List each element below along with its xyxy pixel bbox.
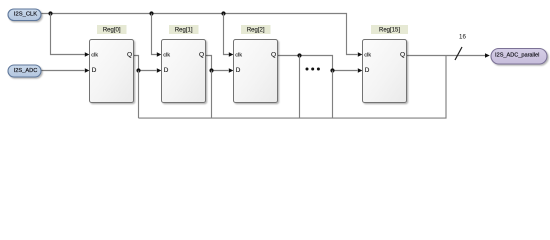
- svg-text:Reg[15]: Reg[15]: [379, 28, 400, 34]
- wire Q2 drop to bus: [299, 56, 301, 119]
- flip-flop Reg[2] box: [234, 40, 278, 103]
- instance label Reg[15]: [371, 25, 408, 34]
- wire clk drop to Reg[2]: [224, 14, 229, 55]
- wire clk drop to Reg[0]: [51, 14, 85, 55]
- wire I2S_CLK clock rail: [41, 14, 358, 55]
- ellipsis omitted registers: [306, 68, 320, 71]
- node junction Q0: [136, 68, 140, 72]
- svg-text:D: D: [92, 67, 97, 74]
- wire Q1 drop to bus: [211, 71, 213, 119]
- instance label Reg[1]: [169, 25, 199, 34]
- arrowhead clk Reg[1]: [157, 52, 162, 57]
- svg-text:D: D: [236, 67, 241, 74]
- svg-text:D: D: [164, 67, 169, 74]
- arrowhead clk Reg[0]: [85, 52, 90, 57]
- svg-text:Q: Q: [199, 52, 204, 59]
- svg-text:16: 16: [459, 34, 466, 41]
- arrowhead output: [485, 53, 490, 58]
- svg-text:Q: Q: [127, 52, 132, 59]
- svg-text:I2S_ADC_parallel: I2S_ADC_parallel: [495, 53, 539, 59]
- svg-text:Reg[1]: Reg[1]: [175, 28, 193, 34]
- arrowhead D Reg[15]: [358, 68, 363, 73]
- wire Q Reg[0] to D Reg[1]: [134, 56, 157, 71]
- instance label Reg[2]: [241, 25, 271, 34]
- node junction clk at Reg[2]: [221, 11, 225, 15]
- flip-flop Reg[0] box: [90, 40, 134, 103]
- svg-text:I2S_ADC: I2S_ADC: [14, 68, 38, 74]
- svg-text:clk: clk: [235, 52, 242, 58]
- output port I2S_ADC_parallel: [491, 49, 547, 65]
- arrowhead D Reg[2]: [229, 68, 234, 73]
- svg-text:Q: Q: [400, 52, 405, 59]
- node junction D15: [330, 68, 334, 72]
- node junction clk at Reg[0]: [48, 11, 52, 15]
- bus width slash: [455, 47, 462, 60]
- node junction clk at Reg[1]: [149, 11, 153, 15]
- wire D15 drop to bus: [332, 71, 334, 119]
- wire Q Reg[1] to D Reg[2]: [206, 56, 229, 71]
- svg-text:Reg[2]: Reg[2]: [247, 28, 265, 34]
- svg-text:Q: Q: [271, 52, 276, 59]
- svg-text:Reg[0]: Reg[0]: [103, 28, 121, 34]
- node junction Q2: [297, 53, 301, 57]
- wire bottom bus: [139, 56, 447, 119]
- arrowhead clk Reg[2]: [229, 52, 234, 57]
- wire Q0 drop to bus: [138, 71, 140, 119]
- arrowhead D Reg[0]: [85, 68, 90, 73]
- svg-text:clk: clk: [364, 52, 371, 58]
- svg-text:clk: clk: [163, 52, 170, 58]
- wire I2S_ADC to Reg[0] D: [41, 70, 85, 72]
- wire Q Reg[15] to output: [407, 55, 486, 57]
- svg-text:D: D: [365, 67, 370, 74]
- input port I2S_ADC: [8, 65, 41, 77]
- instance label Reg[0]: [97, 25, 127, 34]
- wire clk drop to Reg[1]: [152, 14, 157, 55]
- flip-flop Reg[15] box: [363, 40, 407, 103]
- flip-flop Reg[1] box: [162, 40, 206, 103]
- wire Q Reg[2] to D Reg[15]: [278, 56, 358, 71]
- input port I2S_CLK: [8, 9, 41, 21]
- arrowhead D Reg[1]: [157, 68, 162, 73]
- node junction Q1: [209, 68, 213, 72]
- svg-text:clk: clk: [91, 52, 98, 58]
- svg-text:I2S_CLK: I2S_CLK: [14, 12, 37, 18]
- arrowhead clk Reg[15]: [358, 52, 363, 57]
